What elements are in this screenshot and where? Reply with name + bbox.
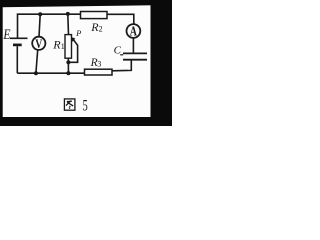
svg-text:C: C: [114, 44, 122, 56]
svg-text:A: A: [130, 23, 138, 39]
svg-text:1: 1: [61, 42, 65, 51]
svg-text:2: 2: [99, 25, 103, 34]
svg-text:V: V: [35, 38, 42, 51]
svg-text:5: 5: [83, 97, 89, 115]
svg-text:3: 3: [97, 59, 101, 68]
svg-text:E: E: [3, 25, 11, 42]
svg-text:P: P: [75, 28, 81, 38]
